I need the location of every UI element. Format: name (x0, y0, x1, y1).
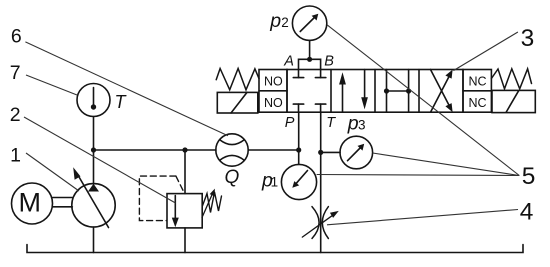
directional control valve 3: body (287, 70, 463, 113)
svg-text:B: B (324, 54, 334, 70)
svg-text:4: 4 (520, 198, 534, 225)
junction: relief branch node (182, 147, 187, 152)
solenoid pilot boxes NC (right) (463, 90, 491, 92)
svg-text:NO: NO (264, 75, 283, 89)
tank return line (27, 245, 523, 253)
pump 1 (variable displacement) (72, 184, 115, 227)
leader line p1 to 5 (317, 175, 520, 176)
solenoid pilot boxes NO (left) (259, 70, 287, 113)
wire: pump outlet riser (93, 150, 95, 184)
pressure gauge p1 (281, 164, 316, 199)
svg-text:1: 1 (271, 174, 279, 189)
svg-text:NO: NO (264, 96, 283, 110)
svg-text:A: A (283, 54, 294, 70)
svg-text:NC: NC (469, 75, 487, 89)
junction: pump node (91, 147, 96, 152)
relief valve 2 (167, 194, 202, 228)
svg-text:3: 3 (358, 117, 366, 132)
svg-text:1: 1 (10, 145, 21, 167)
svg-text:3: 3 (521, 25, 535, 52)
right solenoid box (492, 90, 535, 112)
junction: p3 node (318, 150, 323, 155)
svg-text:Q: Q (225, 167, 240, 188)
pilot line (dashed box) (139, 176, 184, 221)
valve position 3: gauge isolator lines (386, 70, 388, 113)
valve position 2: parallel flow arrows (342, 84, 344, 112)
flow meter Q (6) (216, 134, 248, 166)
wire: P riser valve to p1 gauge (298, 112, 300, 164)
svg-text:T: T (326, 115, 336, 131)
left solenoid box (217, 92, 257, 113)
valve position 1: closed center ports (298, 70, 300, 78)
wire: p2 stem (309, 40, 311, 59)
svg-text:2: 2 (10, 104, 21, 126)
svg-text:M: M (19, 188, 42, 218)
svg-text:6: 6 (11, 25, 22, 47)
wire: p3 stub (321, 151, 340, 153)
leader line throttle to 4 (327, 210, 518, 225)
leader line p3 to 5 (373, 153, 520, 176)
svg-text:2: 2 (281, 15, 289, 30)
wire: main pressure line left (94, 149, 186, 151)
wire: relief valve branch (184, 150, 186, 194)
right return spring (491, 69, 531, 89)
valve position 4: crossed flow arrows (431, 70, 451, 108)
leader line 3 to valve (453, 32, 518, 71)
leader line 7 to thermometer (26, 75, 77, 95)
pressure gauge p3 (340, 136, 373, 169)
svg-text:p: p (347, 112, 359, 134)
wire: thermometer to main line (93, 117, 95, 151)
leader line 6 to flow meter (25, 42, 228, 136)
relief valve spring (202, 192, 221, 213)
junction: bracket node (307, 57, 312, 62)
relief valve adjustment arrow (202, 193, 213, 218)
motor shaft coupling (53, 197, 73, 199)
svg-text:NC: NC (469, 96, 487, 110)
wire: relief valve to tank (184, 228, 186, 253)
wire: main line to flow meter (185, 149, 216, 151)
wire: pump case drain to tank (93, 227, 95, 253)
pressure gauge p2 (292, 6, 326, 40)
wire: gauge bracket above A and B (299, 59, 321, 69)
leader line 1 to pump (26, 153, 79, 191)
svg-text:p: p (269, 10, 281, 32)
wire: T riser valve to tank (320, 112, 322, 252)
svg-text:7: 7 (10, 62, 21, 84)
left return spring (216, 69, 259, 90)
svg-text:5: 5 (522, 163, 536, 190)
svg-text:P: P (285, 115, 295, 131)
leader line p2 to 5 (327, 25, 519, 176)
junction: p1 node (296, 147, 301, 152)
throttle valve 4 (312, 207, 319, 239)
electric motor M (12, 183, 53, 224)
wire: flow meter to P node (248, 149, 299, 151)
thermometer T (7) (77, 84, 110, 117)
leader line 2 to relief valve (24, 117, 176, 203)
